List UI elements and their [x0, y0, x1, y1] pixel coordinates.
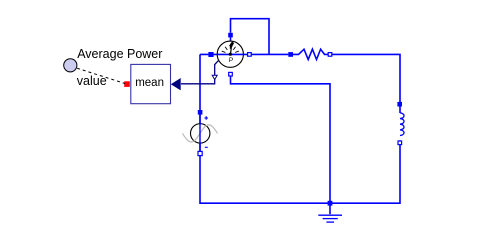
svg-text:P: P — [229, 57, 233, 64]
svg-text:Average Power: Average Power — [77, 47, 162, 61]
svg-text:mean: mean — [135, 77, 164, 89]
svg-text:value: value — [77, 74, 107, 88]
